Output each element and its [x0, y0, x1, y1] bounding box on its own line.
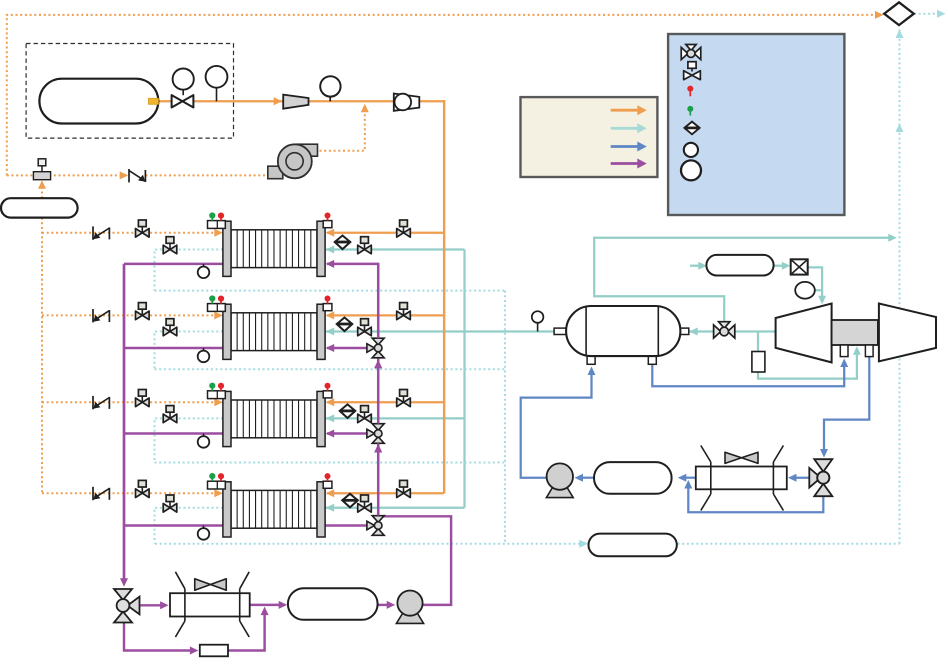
wire cooler bypass: [688, 485, 823, 513]
wire arrow before reducer: [274, 97, 283, 105]
control valve column 3 pressurization: [136, 398, 143, 407]
wire vent line from three-way to header: [594, 238, 888, 323]
wire blowdown dotted from column 2: [155, 332, 224, 370]
wire three-way to cooler: [793, 477, 811, 479]
water cooler shell: [696, 467, 787, 490]
legend three-way valve: [681, 47, 688, 59]
flame arrestor column 3 product: [340, 404, 356, 418]
pressure gauge 3: [329, 96, 331, 101]
control valve column 4 pressurization: [136, 489, 143, 498]
wire purge out line column 3 left: [124, 432, 223, 434]
circulation pump right: [546, 485, 573, 498]
legend gauge large circle: [681, 160, 701, 180]
manual valve feed: [172, 95, 183, 107]
motor ellipse: [795, 282, 815, 299]
legend arrow purple: [611, 162, 638, 165]
wire knockout capsule to vent riser: [678, 543, 900, 545]
wire product line column 2 right: [326, 328, 335, 336]
check valve instrument line: [128, 169, 130, 182]
control valve column 4 blowdown: [163, 504, 170, 513]
adsorber column C4 left head: [223, 482, 231, 537]
control valve column 1 feed: [397, 229, 404, 238]
indicator lights column 3 left: [208, 391, 226, 399]
wire feed line into column 1 right: [327, 232, 444, 234]
three-way valve cooler bypass: [814, 459, 832, 472]
wire purge collection manifold: [123, 264, 125, 579]
wire purge chain col1: [327, 264, 378, 339]
pressure gauge 2: [216, 88, 218, 102]
wire product line column 1 right: [326, 248, 465, 250]
wire cooler to capsule: [681, 477, 696, 479]
wire heater bypass with orifice: [124, 623, 192, 651]
adsorber column C1 body: [231, 230, 317, 268]
adsorber column C3 right head: [317, 391, 325, 446]
wire product line column 4 right: [326, 507, 465, 509]
flame arrestor column 4 product: [342, 494, 358, 508]
feed fan: [394, 94, 420, 111]
surge capsule left: [1, 198, 78, 217]
legend flow colors box: [521, 97, 658, 177]
indicator light column 3 right: [323, 391, 332, 398]
sample point column 2: [203, 348, 205, 351]
three-way valve purge column 3: [372, 424, 384, 431]
vessel outlet nozzle: [148, 98, 158, 104]
adsorber column C2 body: [231, 313, 317, 351]
sample point column 4: [203, 526, 205, 529]
wire surge-capsule to instrument: [41, 184, 43, 199]
indicator lights column 2 left: [208, 304, 226, 312]
wire regen heater inlet: [141, 604, 163, 606]
wire blowdown dotted header row3: [155, 462, 506, 464]
sample point column 3: [203, 434, 205, 437]
gearbox pins: [840, 345, 848, 357]
three-way valve regen: [114, 589, 132, 600]
cooler bypass valve bowtie: [725, 452, 742, 463]
control valve column 2 feed: [397, 311, 404, 320]
wire feed line into column 2 right: [327, 314, 444, 316]
adsorber column C1 right head: [317, 221, 325, 276]
wire blowdown dotted bottom header: [155, 543, 580, 545]
wire feed main line: [152, 100, 444, 102]
wire feed line into column 4 right: [327, 492, 444, 494]
wire purge out line column 1 left: [124, 263, 223, 265]
feed gas vessel: [39, 79, 158, 124]
indicator lights column 1 left: [208, 221, 226, 229]
circulation pump left: [396, 611, 423, 623]
control valve column 2 product: [358, 327, 365, 336]
wire heater to buffer capsule: [250, 604, 280, 606]
adsorber column C1 left head: [223, 221, 231, 276]
wire purge in line column 2 right: [327, 347, 368, 349]
wire gearbox pin to three-way: [824, 357, 869, 452]
sample point column 1: [203, 264, 205, 267]
knockout capsule bottom: [589, 534, 677, 557]
control valve column 1 product: [358, 245, 365, 254]
wire separator right leg to gearbox pin: [652, 364, 844, 386]
heater valve bowtie: [195, 579, 211, 590]
legend sample point small circle: [684, 143, 698, 157]
analyzer instrument: [33, 172, 50, 180]
adsorber column C3 body: [231, 400, 317, 438]
indicator light column 4 right: [323, 481, 332, 488]
check valve column 2 pressurization: [92, 309, 94, 322]
wire purge chain overdraw: [377, 264, 379, 339]
wire column2 product line to separator: [326, 330, 555, 332]
wire cooler circuit to expander: [690, 265, 701, 267]
legend arrow cyan: [611, 127, 638, 130]
seal gas knockout pot: [752, 352, 765, 373]
adsorber column C2 right head: [317, 304, 325, 359]
buffer capsule bottom left: [288, 588, 378, 620]
wire orange feed manifold: [443, 100, 445, 493]
wire pressurization dotted into column 1: [42, 232, 215, 234]
wire pressurization dotted into column 3: [42, 401, 215, 403]
wire mixer outlet dotted: [914, 13, 939, 15]
vacuum blower: [297, 144, 318, 156]
wire purge chain col2-col3: [377, 359, 379, 424]
control valve column 2 blowdown: [163, 327, 170, 336]
wire blowdown dotted from column 1: [155, 250, 224, 291]
control valve column 4 product: [358, 504, 365, 513]
three-way valve separator inlet: [714, 325, 721, 338]
legend control valve: [688, 62, 696, 69]
control valve column 2 pressurization: [136, 311, 143, 320]
indicator light column 2 right: [323, 304, 332, 311]
legend flame arrestor diamond: [684, 122, 699, 135]
control valve column 1 pressurization: [136, 229, 143, 238]
wire pressurization dotted into column 2: [42, 314, 215, 316]
wire orange dotted left manifold: [41, 218, 43, 494]
control valve column 3 blowdown: [163, 414, 170, 423]
wire pressurization dotted into column 4: [42, 492, 215, 494]
wire product gas manifold vertical: [463, 250, 465, 508]
mixing diamond top right: [884, 2, 914, 25]
three-way valve purge column 4: [372, 516, 384, 523]
indicator lights column 4 left: [208, 481, 226, 489]
check valve column 1 pressurization: [92, 226, 94, 239]
reducer: [283, 95, 308, 109]
wire purge out line column 2 left: [124, 347, 223, 349]
three-way valve purge column 2: [372, 338, 384, 345]
compressor right casing: [879, 304, 936, 362]
wire vent riser dotted: [899, 28, 901, 544]
legend arrow orange: [611, 109, 638, 112]
wire capsule to pump: [579, 477, 595, 479]
wire check valve to vacuum blower: [146, 174, 282, 176]
pressure gauge 1: [182, 90, 184, 95]
wire purge line column 4 to three-way: [325, 524, 368, 526]
regen heater shell: [170, 593, 250, 616]
legend symbols box: [668, 34, 844, 215]
adsorber column C3 left head: [223, 391, 231, 446]
control valve column 3 product: [358, 414, 365, 423]
air cooler X-box: [791, 259, 808, 274]
legend red indicator: [689, 89, 691, 97]
wire separator to three-way valve: [688, 330, 775, 332]
wire product line column 3 right: [326, 417, 465, 419]
wire blowdown dotted header row2: [155, 368, 506, 370]
indicator light column 1 right: [323, 221, 332, 228]
adsorber column C4 right head: [317, 482, 325, 537]
adsorber column C4 body: [231, 490, 317, 528]
restriction orifice: [200, 645, 228, 657]
legend arrow blue: [611, 145, 638, 148]
pressure gauge separator: [537, 322, 539, 332]
wire purge in line column 3 right: [327, 432, 368, 434]
flame arrestor column 1 product: [335, 236, 351, 250]
wire buffer capsule to pump: [378, 604, 389, 606]
flame arrestor column 2 product: [337, 318, 353, 332]
wire purge collection manifold overdraw: [123, 264, 125, 579]
wire orange feed manifold overdraw: [443, 100, 445, 493]
check valve column 3 pressurization: [92, 396, 94, 409]
wire purge chain col3-col4: [377, 444, 379, 516]
wire blower discharge riser: [320, 108, 365, 151]
control valve column 1 blowdown: [163, 245, 170, 254]
wire feed line into column 3 right: [327, 401, 444, 403]
wire seal gas line: [757, 332, 759, 353]
wire blowdown dotted vertical: [504, 291, 506, 544]
wire pump riser to chain tee: [378, 516, 451, 605]
condensate capsule: [594, 462, 672, 494]
wire purge out line column 4 left: [124, 524, 223, 526]
control valve column 3 feed: [397, 398, 404, 407]
check valve column 4 pressurization: [92, 487, 94, 500]
expander left casing: [776, 304, 832, 363]
gearbox: [832, 320, 878, 345]
adsorber column C2 left head: [223, 304, 231, 359]
wire blowdown dotted header row1: [155, 290, 506, 292]
legend green indicator: [689, 109, 691, 116]
wire instrument line left: [7, 174, 120, 176]
control valve column 4 feed: [397, 489, 404, 498]
wire pump to separator left leg: [521, 374, 592, 478]
separator vessel: [554, 328, 567, 334]
dashed battery-limit enclosure: [26, 44, 233, 139]
wire feed-gas recycle dotted top: [7, 15, 874, 176]
wire blowdown dotted from column 4: [155, 508, 224, 544]
wire blowdown dotted from column 3: [155, 418, 224, 462]
recycle capsule top: [706, 255, 773, 276]
